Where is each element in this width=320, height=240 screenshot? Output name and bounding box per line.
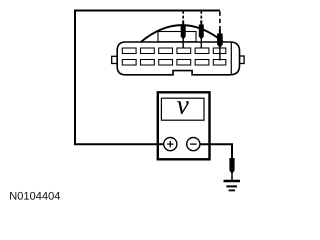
wire: into + terminal (crosses meter wall) [157,143,168,145]
connector body with bottom notch [117,42,239,75]
pin 3B [159,60,173,66]
voltmeter V symbol [177,101,189,114]
pin 6A [213,48,226,54]
dashed test lead drop 1 [182,11,184,21]
probe P1 [181,21,186,40]
wire: left vertical of loop [74,10,76,145]
pin row 1 [122,48,226,54]
pin 5B [195,60,209,66]
pin 4A [177,48,191,54]
probe P3 [217,30,223,49]
pin row 2 [122,60,226,66]
wire: from - terminal right then down to probe P4 [198,144,232,155]
figure number label N0104404 [10,192,60,200]
pin 1A [122,48,136,54]
voltmeter display [161,98,204,120]
probe P2 [199,21,204,40]
pin 6B [213,60,226,66]
probe P4 on ground lead [231,170,233,181]
dashed test lead drop 2 [200,11,202,21]
pin 2A [141,48,155,54]
ground [224,180,241,182]
wire: top horizontal from loop corner to dashed drop corner [75,10,220,12]
connector left tab [112,56,118,63]
voltmeter U1 body [158,92,210,159]
pin 1B [122,60,136,66]
dashed test lead drop 3 from top wire corner [219,12,221,31]
probe P2 tip line into pin 5A [200,38,202,49]
pin 4B [177,60,191,66]
pin 3A [159,48,173,54]
connector right tab [240,56,245,64]
connector hump arc [141,25,223,42]
probe P3 tip line through pin 6A [219,46,221,61]
probe P1 tip line into pin 4A [182,38,184,49]
terminal + [164,138,177,151]
pin 5A [195,48,209,54]
connector inner right wall [230,43,232,75]
pin 2B [141,60,155,66]
wire: bottom horizontal into voltmeter + terminal [74,143,166,145]
terminal - [187,138,200,151]
connector latch rectangle on hump [158,32,196,42]
